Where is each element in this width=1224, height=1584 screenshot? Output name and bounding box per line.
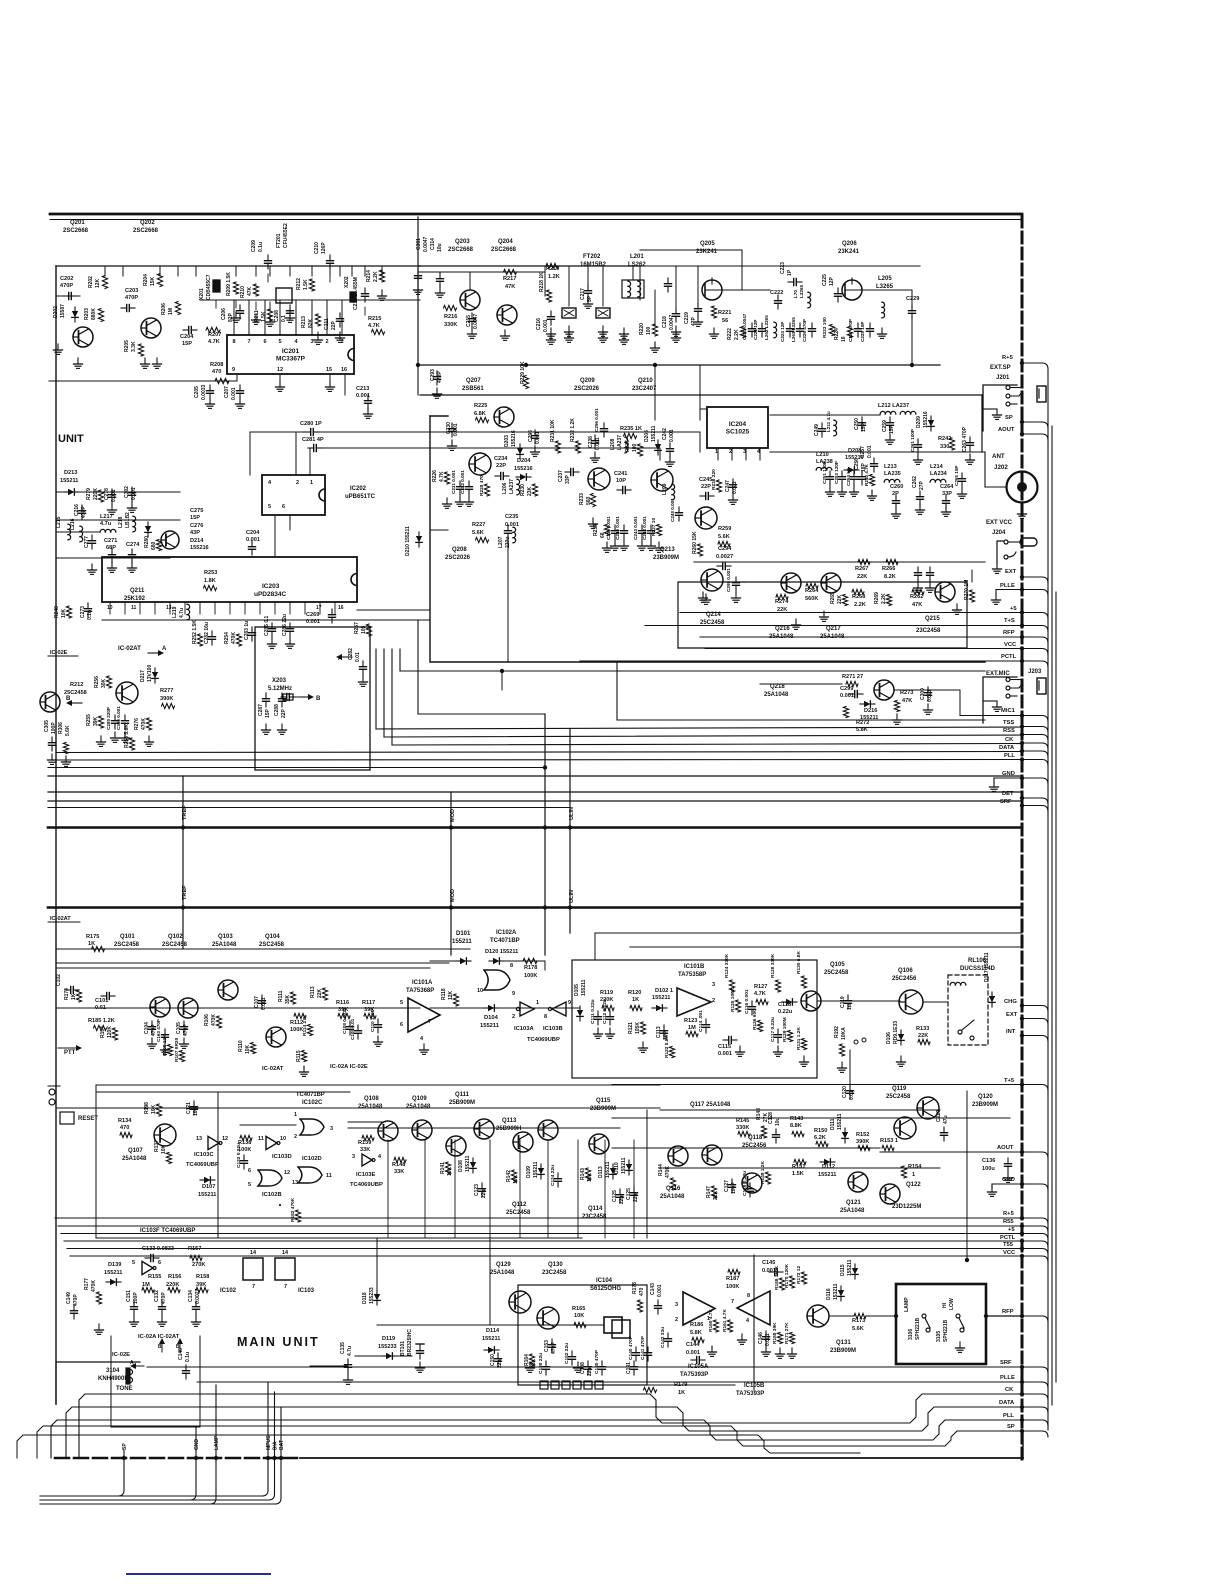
- svg-text:C114 .001: C114 .001: [698, 1010, 704, 1032]
- ic IC102 block: [222, 1250, 263, 1290]
- svg-text:23B909M: 23B909M: [653, 555, 679, 561]
- svg-text:8: 8: [747, 1293, 750, 1299]
- resistor R280: [144, 536, 162, 551]
- inductor L212 LA237: [878, 403, 916, 414]
- svg-text:C113: C113: [656, 1026, 662, 1038]
- svg-text:2SB561: 2SB561: [462, 386, 484, 392]
- svg-text:MPUS: MPUS: [266, 1435, 272, 1450]
- resistor R242: [938, 436, 955, 450]
- svg-text:3: 3: [675, 1302, 678, 1308]
- diode D108: [458, 1155, 476, 1173]
- svg-text:Q211: Q211: [130, 588, 145, 594]
- svg-text:126P: 126P: [321, 242, 327, 254]
- wire mod top rails: [700, 409, 880, 420]
- svg-text:Q122: Q122: [906, 1182, 921, 1188]
- wire PLLE lower line: [197, 1381, 1022, 1383]
- inductor L211: [826, 411, 837, 436]
- svg-text:C237: C237: [558, 470, 564, 482]
- label TC4071BP: [296, 1092, 325, 1098]
- svg-text:C251 120P: C251 120P: [822, 461, 827, 484]
- transistor Q103 lbl: [212, 934, 237, 948]
- capacitor C136b: [580, 1361, 593, 1376]
- svg-text:IC103B: IC103B: [543, 1026, 563, 1032]
- transistor Q116a: [668, 1145, 722, 1166]
- resistor R128: [770, 953, 781, 992]
- svg-text:155233: 155233: [369, 1287, 375, 1304]
- resistor R175: [86, 934, 105, 952]
- svg-text:10P: 10P: [616, 478, 626, 484]
- wire DATA bus: [56, 752, 1022, 753]
- svg-text:AOUT: AOUT: [998, 427, 1015, 433]
- gate IC102C: [294, 1112, 333, 1140]
- svg-text:155211: 155211: [465, 1155, 471, 1172]
- wire top border: [50, 214, 1022, 220]
- capacitor C294: [716, 546, 733, 570]
- svg-text:25C2456: 25C2456: [742, 1143, 767, 1149]
- capacitor C295: [726, 568, 741, 603]
- svg-text:C119: C119: [840, 996, 846, 1008]
- resistor R229: [520, 361, 529, 388]
- capacitor C296: [528, 430, 541, 457]
- svg-text:390K: 390K: [160, 696, 173, 702]
- svg-text:Q210: Q210: [638, 378, 653, 384]
- svg-text:X203: X203: [272, 678, 287, 684]
- svg-text:Q130: Q130: [548, 1262, 563, 1268]
- transistor Q mix2: [651, 469, 673, 491]
- wire mod internal: [430, 530, 508, 662]
- wire driver out: [880, 1152, 1022, 1194]
- resistor R123: [684, 1018, 698, 1037]
- transistor Q211b: [161, 531, 179, 549]
- capacitor C252: [834, 461, 847, 496]
- ic IC204: [707, 407, 768, 448]
- svg-text:0.0027: 0.0027: [716, 554, 733, 560]
- wire lamp joins: [829, 1315, 896, 1317]
- capacitor C206: [221, 305, 244, 322]
- svg-text:4.7K: 4.7K: [208, 339, 220, 345]
- ic IC201: [227, 335, 354, 374]
- svg-text:L70: L70: [793, 290, 798, 298]
- svg-text:C281 4P: C281 4P: [302, 437, 324, 443]
- svg-text:5: 5: [132, 1260, 135, 1266]
- wire Q210 drop: [639, 266, 641, 300]
- svg-text:R145: R145: [736, 1118, 749, 1124]
- resistor R129: [782, 1017, 793, 1042]
- capacitor C224: [780, 322, 794, 342]
- svg-text:R253: R253: [204, 570, 217, 576]
- svg-text:IC103C: IC103C: [194, 1152, 214, 1158]
- svg-text:C282 16u: C282 16u: [204, 622, 210, 644]
- svg-text:C141 470P: C141 470P: [640, 1335, 646, 1360]
- svg-text:R137: R137: [154, 1140, 160, 1152]
- svg-text:155211: 155211: [621, 1157, 627, 1174]
- svg-text:MIC1: MIC1: [1001, 708, 1016, 714]
- svg-text:TA75393P: TA75393P: [736, 1391, 764, 1397]
- svg-text:D209: D209: [916, 416, 922, 428]
- wire fet rail: [640, 250, 742, 290]
- svg-text:R165: R165: [572, 1306, 585, 1312]
- svg-text:0.1u: 0.1u: [258, 242, 264, 252]
- svg-text:C247: C247: [725, 480, 731, 492]
- switch 3106: [908, 1314, 930, 1340]
- svg-text:C210: C210: [314, 242, 320, 254]
- svg-text:2SC2668: 2SC2668: [63, 228, 89, 234]
- svg-text:D210 155211: D210 155211: [405, 526, 411, 556]
- svg-text:25A1048: 25A1048: [122, 1156, 147, 1162]
- capacitor C239: [606, 516, 620, 551]
- svg-text:Q111: Q111: [455, 1092, 470, 1098]
- capacitor C251: [822, 461, 835, 496]
- wire blue reference line: [127, 1573, 270, 1575]
- wire thick bus upper: [48, 826, 1022, 829]
- capacitor C238: [588, 435, 601, 462]
- svg-text:IC105A: IC105A: [688, 1364, 709, 1370]
- svg-text:Q201: Q201: [70, 220, 85, 226]
- svg-text:3105: 3105: [936, 1331, 942, 1342]
- wire bottom drops: [40, 1458, 281, 1504]
- wire PLL bottom line: [51, 1420, 1022, 1458]
- svg-text:C305: C305: [44, 720, 50, 732]
- transistor Q110: [436, 1098, 466, 1156]
- svg-text:LA235: LA235: [884, 471, 901, 477]
- capacitor C153: [544, 1339, 557, 1354]
- svg-text:Q214: Q214: [706, 612, 721, 618]
- svg-text:3: 3: [330, 1126, 333, 1132]
- label IC-02AT a: [262, 1066, 284, 1072]
- svg-text:10u: 10u: [437, 243, 443, 252]
- capacitor C257: [860, 445, 878, 472]
- resistor R105: [88, 1018, 115, 1031]
- svg-text:C301: C301: [416, 238, 422, 250]
- svg-text:C240 0.001: C240 0.001: [615, 516, 620, 540]
- svg-text:12: 12: [277, 367, 283, 373]
- svg-text:R231 10K: R231 10K: [550, 419, 556, 442]
- svg-text:2: 2: [296, 480, 299, 486]
- wire mic box: [400, 649, 985, 720]
- svg-text:22K: 22K: [857, 574, 867, 580]
- svg-text:SRF: SRF: [1000, 799, 1012, 805]
- ic IC104b box: [612, 1320, 630, 1338]
- transistor Q116 lbl: [671, 1175, 673, 1177]
- capacitor C101: [95, 993, 115, 1012]
- svg-text:Q209: Q209: [580, 378, 595, 384]
- svg-text:R155: R155: [148, 1274, 161, 1280]
- capacitor C285: [264, 615, 277, 648]
- resistor R161: [722, 1309, 733, 1332]
- transistor Q a1: [150, 997, 170, 1017]
- svg-text:4.7K: 4.7K: [754, 991, 766, 997]
- svg-text:D113: D113: [598, 1166, 604, 1178]
- svg-text:R178: R178: [524, 965, 537, 971]
- svg-text:R154: R154: [908, 1164, 922, 1170]
- diode D209: [916, 411, 934, 431]
- resistor R177: [84, 1278, 104, 1335]
- svg-text:C263 470P: C263 470P: [962, 426, 968, 452]
- svg-text:C260: C260: [890, 484, 903, 490]
- resistor R145: [736, 1118, 750, 1137]
- svg-text:8.8K: 8.8K: [790, 1123, 802, 1129]
- svg-text:C264: C264: [940, 484, 954, 490]
- capacitor C123: [474, 1183, 487, 1198]
- resistor R274: [775, 594, 789, 613]
- svg-text:C104: C104: [144, 1022, 150, 1034]
- svg-text:C303 0.001: C303 0.001: [116, 706, 121, 730]
- capacitor C148: [178, 1348, 191, 1379]
- svg-text:C275: C275: [190, 508, 203, 514]
- label IC105B name: [0, 0, 1, 1]
- capacitor C104: [144, 1021, 157, 1048]
- svg-text:1: 1: [294, 1112, 297, 1118]
- svg-text:R202: R202: [88, 276, 94, 288]
- capacitor C262: [912, 476, 925, 515]
- ground PLLE: [992, 590, 1023, 605]
- svg-text:5.12MHz: 5.12MHz: [268, 686, 292, 692]
- svg-text:D115: D115: [840, 1264, 846, 1276]
- svg-text:C109 0.01: C109 0.01: [350, 1018, 355, 1040]
- svg-text:47K: 47K: [505, 284, 515, 290]
- svg-text:C229: C229: [906, 296, 919, 302]
- svg-text:C235: C235: [505, 514, 518, 520]
- svg-text:MOD: MOD: [450, 889, 456, 902]
- transistor Q122 lbl2: [892, 1204, 921, 1210]
- svg-text:D213: D213: [64, 470, 77, 476]
- svg-text:C140 470P: C140 470P: [628, 1335, 634, 1360]
- capacitor C211: [324, 313, 344, 330]
- svg-text:R119: R119: [600, 990, 613, 996]
- wire right rail bundle: [1048, 370, 1056, 1430]
- capacitor C129: [936, 1110, 949, 1141]
- capacitor C275 C276: [190, 508, 209, 551]
- svg-text:D104: D104: [484, 1015, 499, 1021]
- resistor R222: [727, 327, 746, 341]
- capacitor C216: [536, 311, 556, 338]
- capacitor C113: [656, 1025, 669, 1040]
- svg-text:C129: C129: [936, 1110, 942, 1122]
- svg-text:CHG: CHG: [1004, 999, 1017, 1005]
- resistor R187: [726, 1269, 740, 1290]
- svg-text:Q106: Q106: [898, 968, 913, 974]
- svg-text:SC1025: SC1025: [726, 429, 750, 436]
- svg-text:Q218: Q218: [770, 684, 785, 690]
- diode D117: [984, 952, 995, 1007]
- svg-text:IC-02A IC-02E: IC-02A IC-02E: [330, 1064, 368, 1070]
- svg-text:2SC2458: 2SC2458: [162, 942, 188, 948]
- resistor R260: [692, 531, 703, 556]
- capacitor C280: [300, 421, 700, 452]
- svg-text:R225: R225: [474, 403, 487, 409]
- svg-text:155211: 155211: [651, 425, 657, 442]
- svg-text:Q213: Q213: [660, 547, 675, 553]
- svg-text:C314: C314: [430, 238, 436, 250]
- svg-text:33P: 33P: [942, 491, 952, 497]
- svg-text:RSS: RSS: [1003, 728, 1015, 734]
- capacitor C247: [725, 479, 738, 504]
- svg-text:R257: R257: [354, 622, 360, 634]
- svg-text:R227: R227: [472, 522, 485, 528]
- capacitor C213: [356, 386, 373, 418]
- svg-text:0.001: 0.001: [762, 1268, 776, 1274]
- diode D217: [140, 665, 158, 683]
- svg-text:18: 18: [841, 336, 847, 342]
- resistor R120: [628, 990, 642, 1011]
- svg-text:LS262: LS262: [628, 262, 646, 268]
- transistor Q201: [63, 220, 93, 347]
- resistor R210: [240, 284, 259, 298]
- resistor R215: [368, 316, 385, 335]
- svg-text:C123: C123: [474, 1184, 480, 1196]
- svg-text:3: 3: [712, 982, 715, 988]
- resistor R104: [100, 1026, 118, 1040]
- capacitor C142: [660, 1327, 672, 1348]
- svg-text:D106: D106: [886, 1032, 892, 1044]
- svg-text:R158: R158: [196, 1274, 209, 1280]
- svg-text:L216: L216: [70, 518, 76, 530]
- wire MOD vertical: [449, 792, 453, 955]
- svg-text:1K: 1K: [632, 997, 639, 1003]
- svg-text:15P: 15P: [190, 515, 200, 521]
- wire IC203 out rail: [102, 610, 430, 620]
- transistor Q111: [474, 1119, 494, 1139]
- svg-text:D120 155211: D120 155211: [485, 949, 518, 955]
- wire VCC drop: [377, 1084, 612, 1256]
- transistor Q208a: [494, 407, 514, 427]
- capacitor C236: [594, 408, 608, 437]
- resistor R109: [162, 1034, 173, 1056]
- svg-text:R214: R214: [366, 270, 372, 282]
- ground Q202 e: [141, 358, 162, 368]
- svg-text:9: 9: [512, 991, 515, 997]
- capacitor C265: [954, 466, 967, 499]
- svg-text:1K: 1K: [88, 941, 95, 947]
- wire PCTL line: [580, 660, 1022, 662]
- svg-text:5.6K: 5.6K: [472, 530, 484, 536]
- svg-text:L207: L207: [498, 536, 504, 548]
- svg-text:470: 470: [212, 369, 221, 375]
- svg-text:C299: C299: [840, 686, 853, 692]
- transistor Q210 label: [632, 378, 657, 392]
- capacitor C144: [686, 1342, 705, 1364]
- svg-text:C234: C234: [494, 456, 508, 462]
- svg-text:D105: D105: [574, 984, 580, 996]
- svg-text:43P: 43P: [190, 530, 200, 536]
- svg-text:3.3K: 3.3K: [131, 341, 137, 352]
- svg-text:C110 120P: C110 120P: [370, 1009, 375, 1032]
- svg-text:13V100: 13V100: [147, 665, 153, 682]
- svg-text:9: 9: [568, 1000, 571, 1006]
- ground top row: [232, 290, 387, 344]
- resistor R225: [474, 403, 489, 423]
- svg-text:6: 6: [282, 504, 285, 510]
- svg-text:J204: J204: [992, 530, 1006, 536]
- svg-text:R179: R179: [674, 1382, 687, 1388]
- resistor R165: [572, 1306, 586, 1328]
- resistor R114: [302, 1014, 313, 1036]
- svg-text:R205: R205: [124, 340, 130, 352]
- svg-text:R148: R148: [756, 1108, 762, 1120]
- svg-text:R123: R123: [684, 1018, 697, 1024]
- capacitor amp caps: [914, 567, 935, 592]
- connector J201 jack: [983, 385, 1046, 431]
- svg-text:R112: R112: [290, 1020, 303, 1026]
- svg-text:C107: C107: [254, 996, 260, 1008]
- diode D210: [405, 526, 422, 556]
- wire Q204 rail: [418, 271, 545, 273]
- resistor R232: [570, 418, 581, 453]
- resistor R178b: [632, 1282, 645, 1312]
- svg-text:11: 11: [326, 1173, 332, 1179]
- wire nested bottom 3: [0, 0, 1, 1]
- svg-text:2SC2026: 2SC2026: [574, 386, 600, 392]
- svg-text:25C2458: 25C2458: [64, 690, 87, 696]
- svg-text:1: 1: [310, 480, 313, 486]
- transistor Q a4: [266, 1027, 286, 1047]
- svg-text:R232 1.2K: R232 1.2K: [570, 418, 576, 442]
- opamp IC101A: [400, 980, 440, 1054]
- svg-text:5.8K: 5.8K: [690, 1330, 702, 1336]
- svg-text:C242: C242: [662, 428, 668, 440]
- resistor R269: [874, 592, 892, 606]
- inverter IC103C: [186, 1136, 228, 1168]
- diode D204: [514, 458, 533, 480]
- svg-text:L210: L210: [816, 452, 829, 458]
- svg-text:22P: 22P: [281, 708, 287, 718]
- svg-text:6.2K: 6.2K: [814, 1135, 826, 1141]
- svg-text:R212: R212: [296, 278, 302, 290]
- svg-text:MC3367P: MC3367P: [276, 356, 306, 363]
- transistor Q213: [653, 507, 717, 561]
- svg-text:Q114: Q114: [588, 1206, 603, 1212]
- svg-text:FT202: FT202: [583, 254, 601, 260]
- capacitor C208: [274, 305, 294, 322]
- diode D109: [526, 1161, 544, 1179]
- svg-text:R143: R143: [580, 1168, 586, 1180]
- transistor Q114 lbl: [582, 1206, 607, 1220]
- svg-text:23C2458: 23C2458: [916, 628, 941, 634]
- svg-text:C209: C209: [251, 240, 257, 252]
- resistor R115: [296, 1050, 309, 1076]
- svg-text:R121: R121: [628, 1022, 634, 1034]
- svg-text:R204: R204: [143, 274, 149, 286]
- svg-text:4.7u: 4.7u: [100, 521, 112, 527]
- svg-text:D204: D204: [517, 458, 531, 464]
- svg-text:35K: 35K: [285, 994, 291, 1004]
- svg-text:5: 5: [400, 1000, 403, 1006]
- svg-text:470K: 470K: [91, 1280, 97, 1292]
- transistor Q204: [491, 239, 517, 325]
- part BT101: [400, 1329, 425, 1373]
- part 3104 tone: [98, 1368, 133, 1392]
- svg-text:R226: R226: [432, 470, 438, 482]
- wire CK bottom line: [79, 1394, 1022, 1458]
- inductor L205: [876, 276, 894, 338]
- capacitor C215: [466, 313, 479, 338]
- svg-text:2SC2458: 2SC2458: [114, 942, 140, 948]
- gate IC102D: [292, 1156, 332, 1186]
- capacitor C109: [350, 1018, 362, 1040]
- capacitor C273: [80, 603, 93, 620]
- wire R270 drop: [971, 570, 973, 582]
- svg-text:0.001: 0.001: [543, 319, 549, 332]
- capacitor C141b: [640, 1335, 652, 1361]
- diode D119: [378, 1336, 397, 1359]
- node right column pads: [998, 355, 1024, 808]
- wire bus GND row: [48, 775, 1022, 777]
- svg-text:27P: 27P: [919, 480, 925, 490]
- svg-text:Q208: Q208: [452, 547, 467, 553]
- capacitor C249: [814, 423, 826, 437]
- transistor Q120 lbl: [972, 1094, 998, 1108]
- svg-text:R223 100: R223 100: [822, 317, 828, 338]
